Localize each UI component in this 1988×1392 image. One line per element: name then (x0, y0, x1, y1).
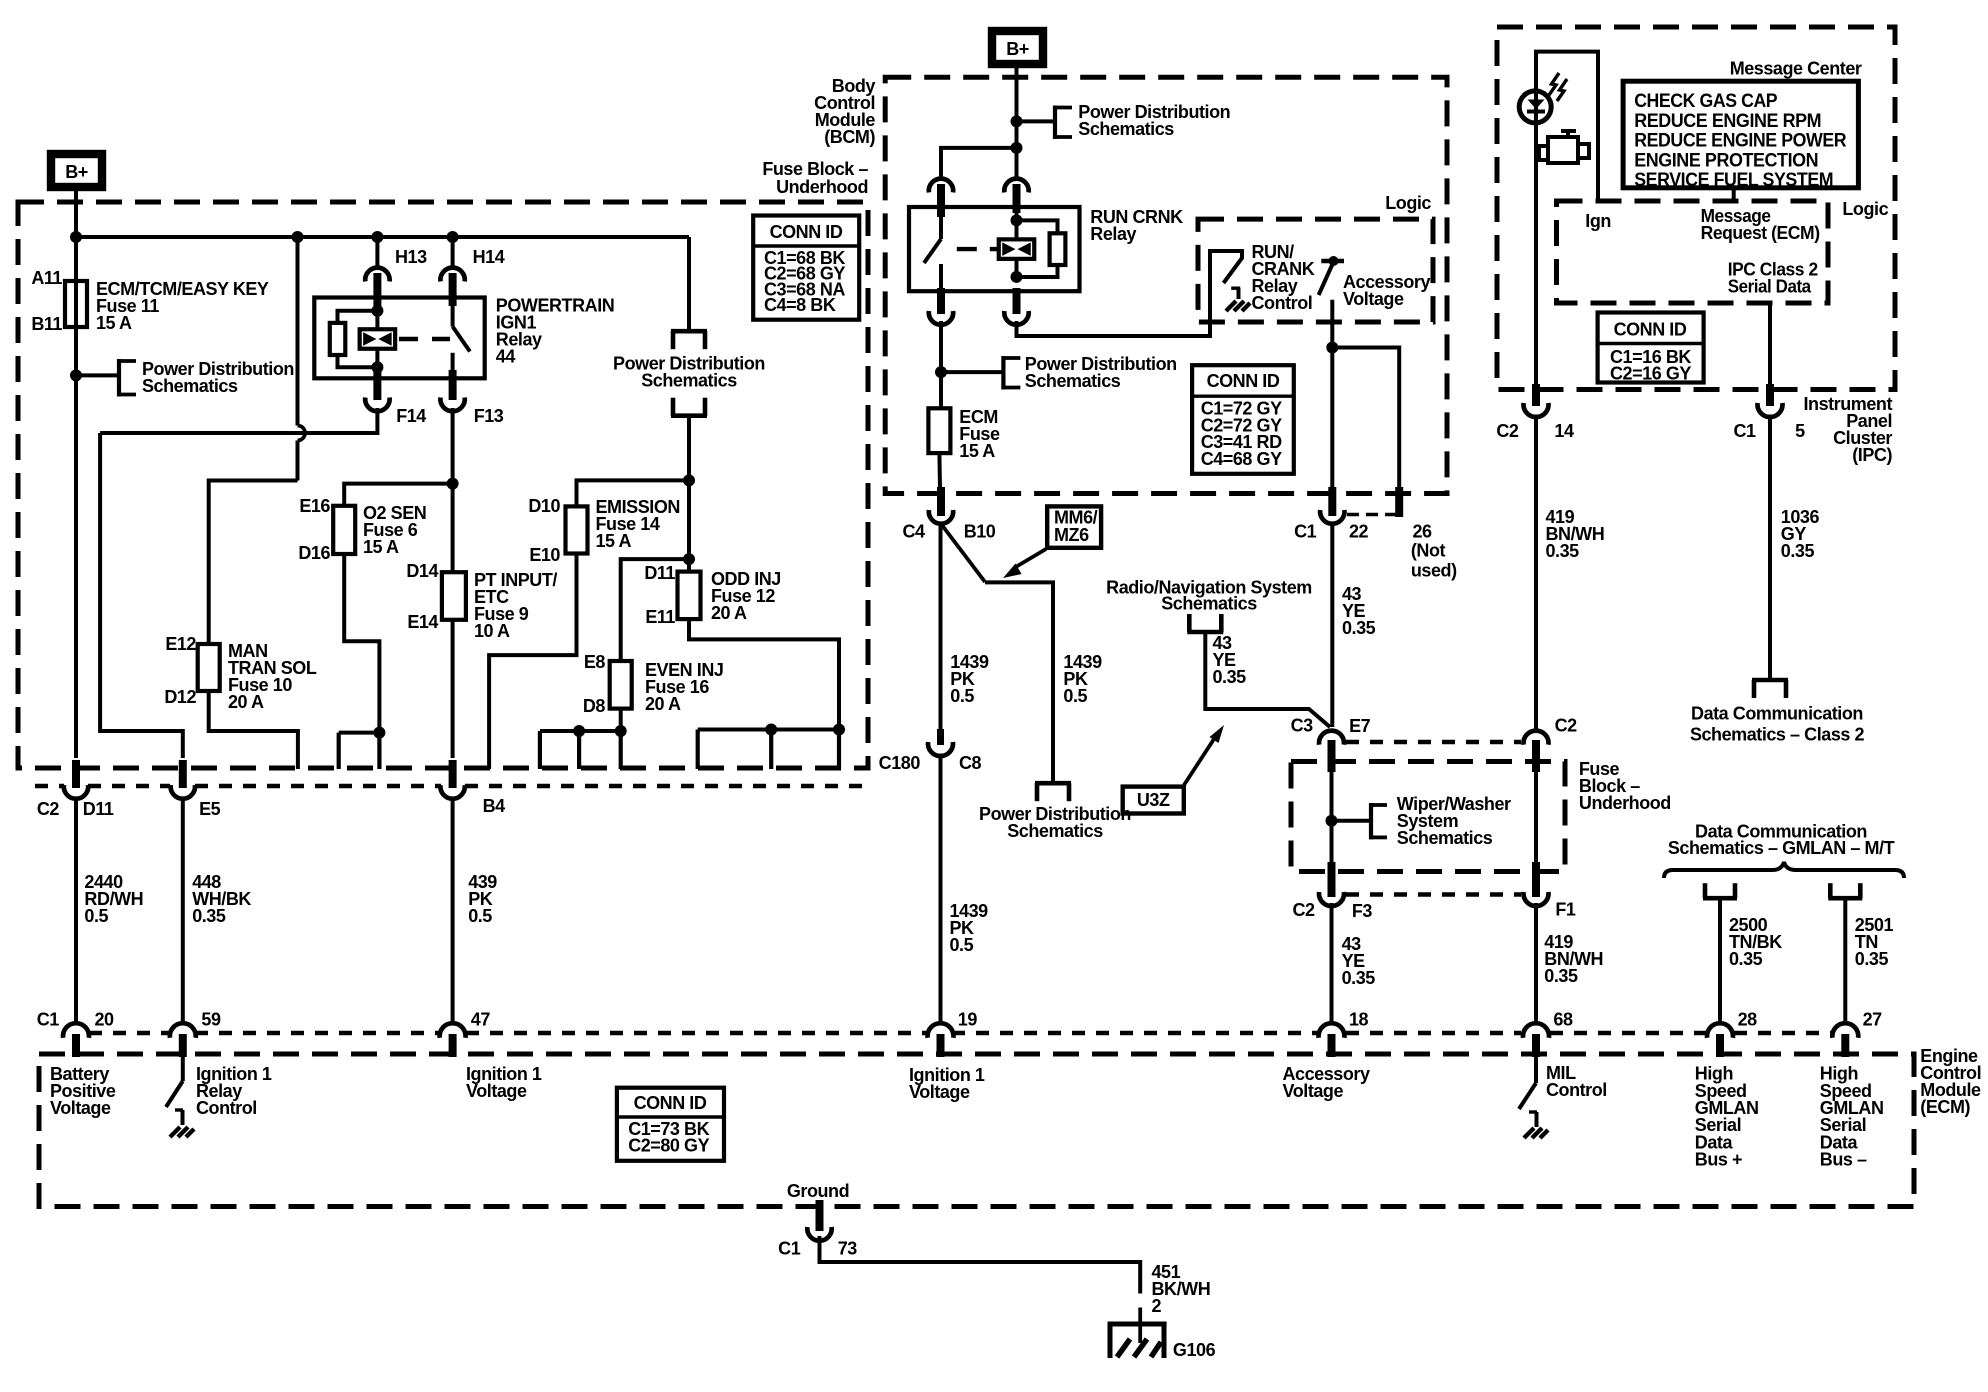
wire 448 WH/BK to ECM 59 (181, 798, 185, 1025)
body control module (BCM) dashed outline (885, 77, 1447, 493)
svg-text:ENGINE PROTECTION: ENGINE PROTECTION (1634, 150, 1818, 171)
svg-text:Ign: Ign (1585, 211, 1611, 231)
wire stub to power distribution ref (76, 373, 118, 377)
svg-text:15 A: 15 A (363, 537, 399, 557)
svg-text:Schematics – GMLAN – M/T: Schematics – GMLAN – M/T (1668, 838, 1895, 858)
ECM connector line (dotted) (89, 1031, 169, 1035)
wire K2 coil out to run/crank relay control (1017, 251, 1243, 336)
fuse block bottom connector line (dotted) (35, 784, 64, 788)
connector (relay K2 switch out) (937, 288, 945, 314)
fuse F6 O2 SEN 15A (333, 506, 355, 554)
junction B+ to power distribution ref (BCM) (1011, 115, 1023, 127)
connector E5 exit (179, 760, 187, 788)
fuse F10 MAN TRAN SOL 20A (198, 644, 220, 691)
svg-text:15 A: 15 A (96, 313, 132, 333)
connector (relay K2 switch feed) (929, 179, 953, 193)
wire F13 / fuse 9 column (451, 408, 455, 572)
fuse block - underhood (left) dashed outline (18, 202, 868, 768)
junction coil top (K2) (1011, 214, 1023, 226)
off-page ref start (GMLAN bus -) (1828, 896, 1862, 901)
junction B+ split to relay switch (1011, 142, 1023, 154)
ECM ignition 1 relay control switch (181, 1057, 185, 1081)
svg-text:18: 18 (1349, 1010, 1369, 1030)
svg-text:C2=16 GY: C2=16 GY (1610, 364, 1691, 384)
svg-text:Underhood: Underhood (1579, 793, 1671, 813)
junction fuse6 comb (373, 727, 385, 739)
wire branch to fuse 6 (344, 484, 452, 506)
relay K1 mechanical link (dashed) (399, 337, 450, 341)
svg-text:0.35: 0.35 (192, 906, 226, 926)
svg-text:Control: Control (1252, 293, 1313, 313)
svg-text:D8: D8 (583, 696, 606, 716)
wire to relay K2 switch (941, 148, 1017, 180)
wire 1439 PK to C180 (939, 524, 943, 729)
wire 439 PK to ECM 47 (451, 798, 455, 1025)
power symbol B+ (left feed) (51, 154, 102, 187)
wire fuse6 output to connector C1 stubs (344, 554, 379, 733)
svg-text:C2: C2 (37, 799, 60, 819)
svg-text:27: 27 (1863, 1010, 1883, 1030)
svg-text:H14: H14 (473, 247, 505, 267)
brace (GMLAN) (1664, 862, 1904, 878)
wire inside fuse block (419) (1534, 770, 1538, 864)
svg-text:Schematics: Schematics (1397, 828, 1493, 848)
off-page ref: Wiper/Washer System Schematics (1369, 803, 1373, 839)
svg-text:C8: C8 (959, 753, 982, 773)
connector pin 19 (ECM) (928, 1023, 954, 1038)
svg-text:REDUCE ENGINE RPM: REDUCE ENGINE RPM (1634, 111, 1821, 132)
label box U3Z (1123, 787, 1184, 814)
junction comb 1 (765, 724, 777, 736)
svg-text:Schematics: Schematics (1078, 119, 1174, 139)
svg-text:E16: E16 (299, 496, 330, 516)
wire branch to pin 26 (not used) (1332, 348, 1399, 490)
fuse F9 PT INPUT/ETC 10A (442, 572, 466, 620)
svg-text:0.35: 0.35 (1342, 618, 1376, 638)
ground (MIL control) (1524, 1128, 1534, 1138)
accessory voltage switch blade (1319, 263, 1333, 295)
svg-text:47: 47 (471, 1010, 491, 1030)
inline connector C180 / C8 (937, 729, 944, 745)
wire 43 YE radio branch (1205, 632, 1330, 727)
junction coil bottom (K2) (1011, 271, 1023, 283)
svg-text:CONN ID: CONN ID (1207, 371, 1280, 391)
svg-text:C4: C4 (902, 522, 925, 542)
svg-text:D11: D11 (83, 799, 114, 819)
off-page ref: Power Distribution Schematics (left) (117, 359, 121, 397)
svg-text:E7: E7 (1349, 716, 1371, 736)
wire fuse10 output to connector C1 stub (209, 691, 298, 769)
junction accessory to pin 26 branch (1326, 342, 1338, 354)
off-page ref: Power Distribution Schematics (BCM mid) (1001, 356, 1005, 390)
svg-text:Voltage: Voltage (1283, 1081, 1344, 1101)
svg-text:C2: C2 (1555, 716, 1578, 736)
svg-text:(ECM): (ECM) (1920, 1097, 1970, 1117)
relay K2 coil winding (999, 239, 1035, 259)
relay K2 switch (939, 214, 943, 239)
logic box (BCM) dashed outline (1198, 219, 1433, 322)
svg-text:(BCM): (BCM) (824, 127, 875, 147)
wire inside fuse block (43 YE) (1330, 770, 1334, 864)
off-page ref: Power Distribution Schematics (MM6 branch end) (1035, 781, 1071, 786)
wire branch to fuse 14 EMISSION (577, 480, 690, 506)
wire K2 switch out to ECM fuse (939, 321, 943, 372)
svg-text:D12: D12 (164, 687, 196, 707)
svg-text:20 A: 20 A (228, 692, 264, 712)
svg-text:D14: D14 (406, 561, 438, 581)
svg-text:B+: B+ (1006, 39, 1029, 59)
connector F14 (relay coil out) (373, 368, 381, 400)
svg-text:Fuse Block –: Fuse Block – (762, 159, 868, 179)
svg-text:19: 19 (958, 1010, 978, 1030)
svg-text:D16: D16 (298, 543, 330, 563)
svg-text:68: 68 (1553, 1010, 1573, 1030)
svg-text:15 A: 15 A (959, 441, 995, 461)
wire main power distribution column (687, 237, 691, 330)
relay K1 POWERTRAIN IGN1 outline (314, 298, 484, 379)
svg-text:Bus –: Bus – (1820, 1150, 1867, 1170)
wire 2500 TN/BK to ECM 28 (1718, 898, 1722, 1025)
power symbol B+ (BCM feed) (992, 31, 1043, 64)
label box MM6/MZ6 (1047, 506, 1101, 547)
connector C2 entry (419 wire) (1524, 731, 1549, 745)
wire B+ to fuse block bus (74, 187, 78, 238)
junction to emission fuse (683, 474, 695, 486)
ground (run/crank relay control) (1226, 301, 1236, 311)
wire ECM fuse to C4 exit (937, 453, 942, 489)
wire 2440 RD/WH to ECM 20 (74, 798, 78, 1025)
wire fuse14 output stub (489, 554, 576, 770)
connector D11 exit (battery positive) (72, 760, 80, 788)
connector (relay K2 coil out) (1013, 288, 1021, 314)
wire fuse16 output comb (619, 709, 623, 731)
connector B4 exit (449, 760, 457, 788)
connector H13 (relay coil feed) (375, 237, 379, 269)
wire B+ into BCM (1015, 64, 1019, 180)
fuse F11 wire (battery positive) (74, 237, 78, 758)
svg-text:(Not: (Not (1411, 541, 1446, 561)
fuse ECM Fuse 15A (BCM) (939, 372, 943, 408)
svg-text:Schematics: Schematics (142, 376, 238, 396)
wire 2501 TN to ECM 27 (1843, 898, 1847, 1025)
svg-text:Voltage: Voltage (1343, 289, 1404, 309)
wire fuse12 output comb (689, 619, 839, 729)
svg-text:CONN ID: CONN ID (770, 222, 843, 242)
svg-text:H13: H13 (395, 247, 427, 267)
svg-text:73: 73 (838, 1239, 858, 1259)
svg-text:0.5: 0.5 (950, 686, 974, 706)
svg-text:Schematics – Class 2: Schematics – Class 2 (1690, 725, 1865, 745)
indicator rays (lightning) (1549, 73, 1559, 95)
wire branch to fuse 16 EVEN INJ (621, 559, 689, 661)
wire stub to ref (1017, 119, 1055, 123)
CONN ID table (BCM) (1192, 365, 1294, 474)
connector pin 27 (ECM) (1832, 1023, 1858, 1038)
svg-text:Message Center: Message Center (1730, 59, 1862, 79)
svg-text:Control: Control (196, 1098, 257, 1118)
ground (ignition 1 relay control) (170, 1127, 180, 1137)
indicator lamp MIL (LED symbol) (1534, 88, 1538, 125)
CONN ID table (IPC) (1598, 313, 1704, 383)
svg-text:Data Communication: Data Communication (1691, 704, 1863, 724)
CONN ID table (ECM) (617, 1088, 724, 1161)
svg-text:U3Z: U3Z (1137, 790, 1170, 810)
svg-text:20 A: 20 A (711, 603, 747, 623)
connector H14 (relay switch feed) (451, 237, 455, 269)
wire C4 split diagonal (MM6/MZ6 branch) (942, 525, 986, 583)
svg-text:C1: C1 (1294, 522, 1317, 542)
pin 26 stub (not used) (1395, 487, 1403, 517)
svg-text:0.35: 0.35 (1546, 541, 1580, 561)
junction B+ bus at H13 (371, 231, 383, 243)
wire accessory voltage to pin 22 (1330, 300, 1334, 489)
svg-text:0.35: 0.35 (1342, 968, 1376, 988)
comb bus fuse6 output (339, 731, 380, 735)
svg-text:Request (ECM): Request (ECM) (1701, 223, 1820, 243)
junction fuse11 wire to power distribution ref (70, 369, 82, 381)
junction F13 wire to fuse 6 branch (447, 478, 459, 490)
wire 419 BN/WH to ECM 68 (1534, 903, 1538, 1025)
svg-text:Relay: Relay (1090, 224, 1136, 244)
svg-text:5: 5 (1795, 421, 1805, 441)
junction comb left (573, 725, 585, 737)
ground G106 symbol (1108, 1322, 1167, 1327)
junction comb fuse16 (615, 725, 627, 737)
svg-text:Logic: Logic (1842, 199, 1888, 219)
svg-text:Serial Data: Serial Data (1728, 277, 1812, 297)
svg-text:F14: F14 (396, 406, 426, 426)
svg-text:0.35: 0.35 (1213, 667, 1247, 687)
arrow MM6/MZ6 to wire (1014, 549, 1046, 568)
fuse block - underhood (right) dashed outline (1291, 762, 1565, 872)
svg-text:C1: C1 (778, 1239, 801, 1259)
connector pin 68 (ECM) (1523, 1023, 1549, 1038)
svg-text:15 A: 15 A (596, 531, 632, 551)
svg-text:0.35: 0.35 (1781, 541, 1815, 561)
off-page ref: Power Distribution Schematics (BCM top) (1053, 106, 1057, 140)
svg-text:0.5: 0.5 (1063, 686, 1087, 706)
svg-text:C1: C1 (1733, 421, 1756, 441)
off-page ref start (GMLAN bus +) (1703, 896, 1737, 901)
svg-text:E12: E12 (165, 634, 196, 654)
svg-text:B+: B+ (65, 162, 88, 182)
svg-text:Schematics: Schematics (1161, 594, 1257, 614)
svg-text:0.5: 0.5 (950, 935, 974, 955)
svg-text:MZ6: MZ6 (1054, 525, 1089, 545)
junction B+ bus at fuse 11 wire (70, 231, 82, 243)
svg-text:Voltage: Voltage (50, 1098, 111, 1118)
accessory voltage source bar (1321, 259, 1344, 264)
svg-text:E10: E10 (529, 545, 560, 565)
junction B+ bus at H14 (447, 231, 459, 243)
relay K1 switch (451, 303, 455, 327)
svg-text:B10: B10 (964, 522, 996, 542)
connector C3 E7 entry (1319, 731, 1344, 745)
svg-text:Schematics: Schematics (1025, 371, 1121, 391)
engine control module (ECM) dashed outline (39, 1054, 1914, 1207)
wire branch to fuse 10 (hop over F14 wire) (296, 237, 300, 426)
svg-text:used): used) (1411, 561, 1457, 581)
svg-text:Logic: Logic (1385, 193, 1431, 213)
instrument panel cluster (IPC) dashed outline (1497, 27, 1895, 390)
connector pin 47 (ECM) (440, 1023, 466, 1038)
junction to wiper/washer ref (1326, 815, 1338, 827)
svg-text:Schematics: Schematics (1007, 821, 1103, 841)
connector C1 22 exit (BCM) (1328, 487, 1336, 516)
wire 419 BN/WH from IPC (1534, 415, 1538, 733)
connector C1 73 exit (ground) (816, 1200, 824, 1231)
fuse F14b EMISSION 15A (566, 506, 588, 553)
svg-text:59: 59 (201, 1010, 221, 1030)
svg-text:D11: D11 (644, 563, 675, 583)
svg-text:Bus +: Bus + (1695, 1150, 1742, 1170)
off-page ref: resume from Power Distribution Schematics (671, 413, 707, 418)
connector pin 28 (ECM) (1707, 1023, 1733, 1038)
connector pin 59 (ECM) (170, 1023, 196, 1038)
junction B+ bus to fuse 10 branch (292, 231, 304, 243)
junction to power distribution ref (BCM mid) (935, 366, 947, 378)
svg-text:Control: Control (1546, 1080, 1607, 1100)
svg-text:F3: F3 (1352, 901, 1373, 921)
wire 43 YE to ECM 18 (1330, 903, 1334, 1025)
svg-text:C2=80 GY: C2=80 GY (628, 1136, 709, 1156)
connector F13 (relay switch out) (449, 370, 457, 400)
svg-text:REDUCE ENGINE POWER: REDUCE ENGINE POWER (1634, 131, 1847, 152)
ECM MIL control switch (1534, 1057, 1538, 1083)
connector C1 5 exit (IPC) (1766, 384, 1774, 406)
relay K1 coil winding (360, 329, 396, 349)
svg-text:0.35: 0.35 (1855, 949, 1889, 969)
svg-text:B4: B4 (483, 796, 506, 816)
svg-text:B11: B11 (31, 314, 62, 334)
connector line dotted (top) (1346, 740, 1521, 744)
message center box (1623, 81, 1858, 188)
svg-text:CONN ID: CONN ID (1614, 320, 1687, 340)
relay K1 coil wire (375, 303, 379, 368)
svg-text:C180: C180 (879, 753, 921, 773)
logic box (IPC) dashed outline (1557, 201, 1829, 303)
svg-text:20: 20 (95, 1010, 115, 1030)
relay K2 resistor loop (1017, 220, 1058, 234)
svg-text:E11: E11 (645, 607, 675, 627)
off-page ref: Data Communication Schematics - Class 2 (wire end) (1752, 678, 1788, 683)
svg-text:Schematics: Schematics (641, 371, 737, 391)
svg-text:20 A: 20 A (645, 694, 681, 714)
connector line dotted (bottom) (1346, 892, 1521, 896)
svg-text:22: 22 (1349, 522, 1369, 542)
run/crank relay control switch (1224, 258, 1243, 283)
svg-text:C2: C2 (1292, 900, 1315, 920)
dashed link pin 22 to pin 26 (1347, 513, 1396, 517)
svg-text:C4=8 BK: C4=8 BK (764, 295, 836, 315)
connector C4 B10 exit (BCM) (937, 487, 945, 516)
svg-text:0.5: 0.5 (468, 906, 492, 926)
svg-text:E14: E14 (407, 612, 438, 632)
svg-text:44: 44 (496, 347, 516, 367)
wire 451 BK/WH to G106 (820, 1236, 1141, 1294)
connector C2 14 exit (IPC) (1534, 125, 1538, 385)
svg-text:10 A: 10 A (474, 621, 510, 641)
fuse F11 ECM/TCM/EASY KEY 15A (65, 281, 87, 327)
svg-text:G106: G106 (1173, 1340, 1216, 1360)
check engine icon (1548, 137, 1578, 163)
relay K2 mechanical link (dashed) (957, 247, 999, 251)
junction relay coil top (371, 305, 383, 317)
svg-text:0.35: 0.35 (1544, 966, 1578, 986)
svg-text:0.35: 0.35 (1729, 949, 1763, 969)
wire serial data to C1 5 (1768, 303, 1772, 390)
relay K2 coil wire (1015, 210, 1019, 277)
svg-text:F1: F1 (1555, 900, 1576, 920)
wire B+ bus inside fuse block (76, 235, 689, 239)
stub message center to logic (1732, 188, 1736, 201)
svg-text:C2: C2 (1496, 421, 1519, 441)
svg-text:C1: C1 (37, 1010, 60, 1030)
wire fuse9 to B4 (451, 620, 455, 758)
svg-text:CHECK GAS CAP: CHECK GAS CAP (1634, 91, 1778, 112)
fuse F12 ODD INJ 20A (678, 572, 701, 620)
svg-text:A11: A11 (31, 268, 62, 288)
wire MIL indicator to Ign (1536, 52, 1598, 201)
svg-text:F13: F13 (474, 406, 504, 426)
connector pin 18 (ECM) (1319, 1023, 1345, 1038)
svg-text:E5: E5 (199, 799, 221, 819)
svg-text:CONN ID: CONN ID (634, 1093, 707, 1113)
arrow U3Z to wire (1184, 739, 1214, 785)
svg-text:Underhood: Underhood (776, 177, 868, 197)
svg-text:E8: E8 (584, 652, 606, 672)
svg-text:28: 28 (1738, 1010, 1758, 1030)
svg-text:D10: D10 (528, 496, 560, 516)
svg-text:(IPC): (IPC) (1852, 445, 1892, 465)
wire 1439 PK to ECM 19 (939, 754, 943, 1026)
svg-text:C4=68 GY: C4=68 GY (1201, 449, 1282, 469)
wire 1036 GY from IPC (1768, 415, 1772, 681)
connector pin 20 (ECM) (63, 1023, 89, 1038)
svg-text:26: 26 (1413, 522, 1433, 542)
connector F1 exit (1532, 862, 1540, 897)
junction relay coil bottom (371, 361, 383, 373)
connector C2 F3 exit (1328, 862, 1336, 897)
svg-text:14: 14 (1554, 421, 1574, 441)
off-page ref: Power Distribution Schematics (wire end) (671, 329, 707, 334)
CONN ID table (fuse block) (753, 216, 859, 320)
wire stub to ref (941, 370, 1002, 374)
svg-text:Ground: Ground (787, 1181, 849, 1201)
svg-text:C3: C3 (1291, 716, 1314, 736)
junction to even inj fuse (683, 553, 695, 565)
connector (relay K2 coil feed) (1004, 179, 1028, 193)
relay K1 resistor loop (338, 311, 378, 324)
relay K2 RUN CRNK outline (909, 207, 1080, 291)
junction comb 2 (833, 724, 845, 736)
svg-text:2: 2 (1152, 1296, 1162, 1316)
fuse F16 EVEN INJ 20A (610, 661, 632, 709)
svg-text:0.5: 0.5 (84, 906, 108, 926)
svg-text:Voltage: Voltage (909, 1082, 970, 1102)
wire 43 YE pin22 to E7 (1330, 524, 1334, 727)
wire F14 to E5 (ignition 1 relay control) (100, 408, 377, 433)
wire stub to ref (1332, 819, 1371, 823)
svg-text:Voltage: Voltage (466, 1081, 527, 1101)
